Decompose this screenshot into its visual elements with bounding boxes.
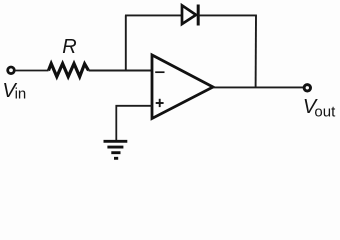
op-amp U1: [152, 55, 213, 119]
node Vout output terminal: [304, 85, 310, 91]
svg-text:out: out: [314, 103, 336, 120]
wire input terminal to resistor: [15, 70, 49, 72]
label Vin: [2, 80, 26, 103]
svg-text:in: in: [15, 86, 27, 103]
diode D1: [182, 5, 198, 26]
svg-text:R: R: [62, 36, 76, 58]
wire feedback top rail left segment: [125, 14, 182, 16]
wire feedback vertical left: [125, 15, 127, 70]
wire resistor to op-amp inverting input: [89, 70, 153, 72]
op-amp non-inverting pin mark: [156, 99, 164, 107]
wire op-amp output: [213, 86, 303, 88]
wire non-inverting input to ground: [116, 106, 152, 140]
label Vout: [303, 96, 336, 120]
node Vin input terminal: [8, 67, 15, 74]
wire feedback top rail right segment: [198, 14, 257, 16]
ground: [104, 141, 128, 158]
resistor R: [49, 64, 89, 77]
wire feedback vertical right: [255, 15, 257, 87]
op-amp inverting pin mark: [155, 71, 164, 73]
